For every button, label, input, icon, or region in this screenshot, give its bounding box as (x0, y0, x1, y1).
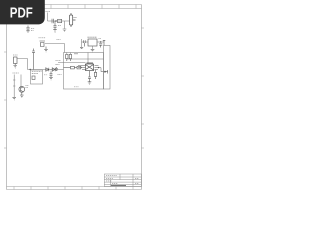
ground below Q1 (20, 92, 24, 98)
regulator ground lead (92, 46, 94, 49)
resistor R4 in box (69, 54, 71, 61)
wire from X1 (45, 44, 65, 53)
text label near wire (57, 39, 61, 41)
diode D1 (46, 68, 49, 71)
ground (53, 30, 57, 33)
wire bus in box (67, 58, 104, 60)
regulator U2 body (88, 39, 97, 46)
ground (88, 82, 92, 85)
frame zone ticks left (4, 52, 7, 148)
PDF badge (0, 0, 45, 24)
svg-text:PDF: PDF (10, 4, 33, 21)
IC U1 left pins (78, 66, 86, 70)
node junction (55, 20, 56, 21)
transistor rail 2 (20, 75, 22, 87)
sheet frame border (7, 5, 142, 190)
reference text R2 (58, 24, 61, 26)
input wire (82, 41, 89, 43)
module boundary box (64, 53, 104, 90)
connector J2 housing (104, 46, 111, 90)
node junction (30, 69, 31, 70)
capacitor C8 (50, 69, 52, 72)
ground (91, 49, 95, 52)
wire from J1 (17, 59, 28, 70)
series resistor R5 (64, 66, 75, 69)
text labels mid (44, 74, 62, 76)
relay K1 coil (32, 76, 35, 79)
input lead (81, 39, 83, 47)
ground (26, 31, 30, 32)
schematic: power input net label +5V (46, 10, 51, 12)
resistor R3 in box (66, 54, 68, 61)
connector J2 pin (104, 70, 107, 74)
output net stub (103, 40, 106, 45)
output wire (97, 41, 104, 43)
ground (49, 77, 53, 80)
title block text (106, 176, 139, 186)
node junction (100, 41, 101, 42)
capacitor C7 (32, 49, 35, 70)
ground (80, 47, 83, 48)
fuse F1 (70, 13, 76, 27)
diode D2 (52, 68, 55, 71)
capacitor C3 below badge (26, 26, 29, 31)
resistor R7 (94, 70, 96, 79)
crystal X1 (40, 41, 46, 47)
regulator U2 label (88, 36, 97, 38)
capacitor C1 on rail (52, 19, 54, 23)
transistor rail 1 (13, 75, 15, 98)
wire from net label (48, 13, 70, 22)
capacitor C2 to ground (53, 21, 56, 30)
transistor Q1 (19, 86, 25, 92)
ground below J1 (13, 64, 17, 69)
IC U1 body (86, 63, 94, 71)
capacitor C9 to ground (50, 71, 53, 77)
fuse label (74, 17, 78, 19)
connector J1 (14, 57, 18, 64)
series resistor R6 (74, 66, 82, 69)
capacitor C5 (99, 44, 102, 48)
ground below X1 (44, 47, 48, 52)
capacitor C6 below IC (88, 71, 91, 82)
wire top of box (67, 53, 78, 55)
title block (104, 174, 141, 187)
capacitor C4 (84, 40, 86, 46)
capacitor C10 (55, 67, 58, 71)
ground (63, 29, 67, 32)
transistor Q1 label (26, 86, 29, 88)
relay K1 box (31, 70, 43, 84)
net label text left (56, 61, 62, 65)
IC U1 right pins (95, 66, 102, 70)
bottom text in box (74, 86, 79, 88)
wire branch down (64, 21, 66, 29)
vertical net in box (87, 53, 89, 64)
input wire entering box (58, 62, 86, 64)
frame zone ticks bottom (14, 187, 133, 190)
label above rails (13, 72, 20, 74)
connector J1 label (13, 54, 18, 56)
relay K1 text (32, 72, 42, 74)
main low wire (28, 69, 64, 71)
node junction (98, 67, 99, 68)
frame zone ticks right (141, 28, 144, 148)
wire to connector (101, 68, 105, 72)
ground (12, 97, 16, 100)
tiny text top right of regulator (86, 36, 101, 39)
label text C3 (31, 28, 35, 30)
resistor R1 (58, 19, 62, 22)
cluster X1 label (39, 37, 46, 39)
frame zone ticks top (51, 5, 136, 9)
